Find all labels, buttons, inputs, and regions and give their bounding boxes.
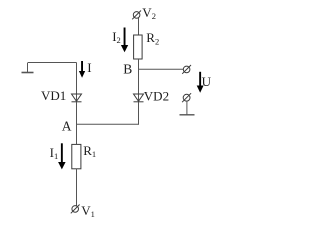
svg-text:U: U: [202, 74, 212, 89]
ground (top-left common): [22, 63, 34, 73]
terminal V2: [132, 11, 141, 20]
wire: node A to VD2 branch: [77, 123, 139, 125]
wire: VD2 cathode to node A wire: [138, 102, 140, 125]
svg-text:VD1: VD1: [41, 88, 66, 103]
wire: down to VD1 anode: [76, 63, 78, 102]
resistor R2: [134, 35, 143, 59]
wire: R1 to terminal V1: [76, 169, 78, 206]
current arrow I2: [121, 28, 128, 53]
svg-text:A: A: [62, 118, 72, 133]
wire: V2 terminal to R2: [138, 18, 140, 35]
diode VD2: [134, 94, 144, 102]
svg-text:B: B: [123, 61, 132, 76]
svg-text:VD2: VD2: [144, 89, 169, 104]
current arrow I1: [58, 143, 66, 169]
diode VD1: [72, 94, 82, 102]
wire: ground to top of VD1 branch: [28, 62, 77, 64]
terminal V1: [71, 205, 80, 214]
wire: VD1 cathode down through node A to R1: [76, 102, 78, 145]
wire: node B to output terminal: [139, 68, 184, 70]
output terminal (top right): [182, 65, 191, 74]
voltage arrow U: [197, 72, 204, 93]
output terminal (bottom right): [182, 93, 191, 102]
resistor R1: [72, 144, 81, 168]
svg-text:I: I: [87, 60, 91, 75]
current arrow I: [79, 61, 85, 78]
ground (bottom right): [180, 101, 195, 115]
wire: R2 down through node B to VD2: [138, 59, 140, 101]
